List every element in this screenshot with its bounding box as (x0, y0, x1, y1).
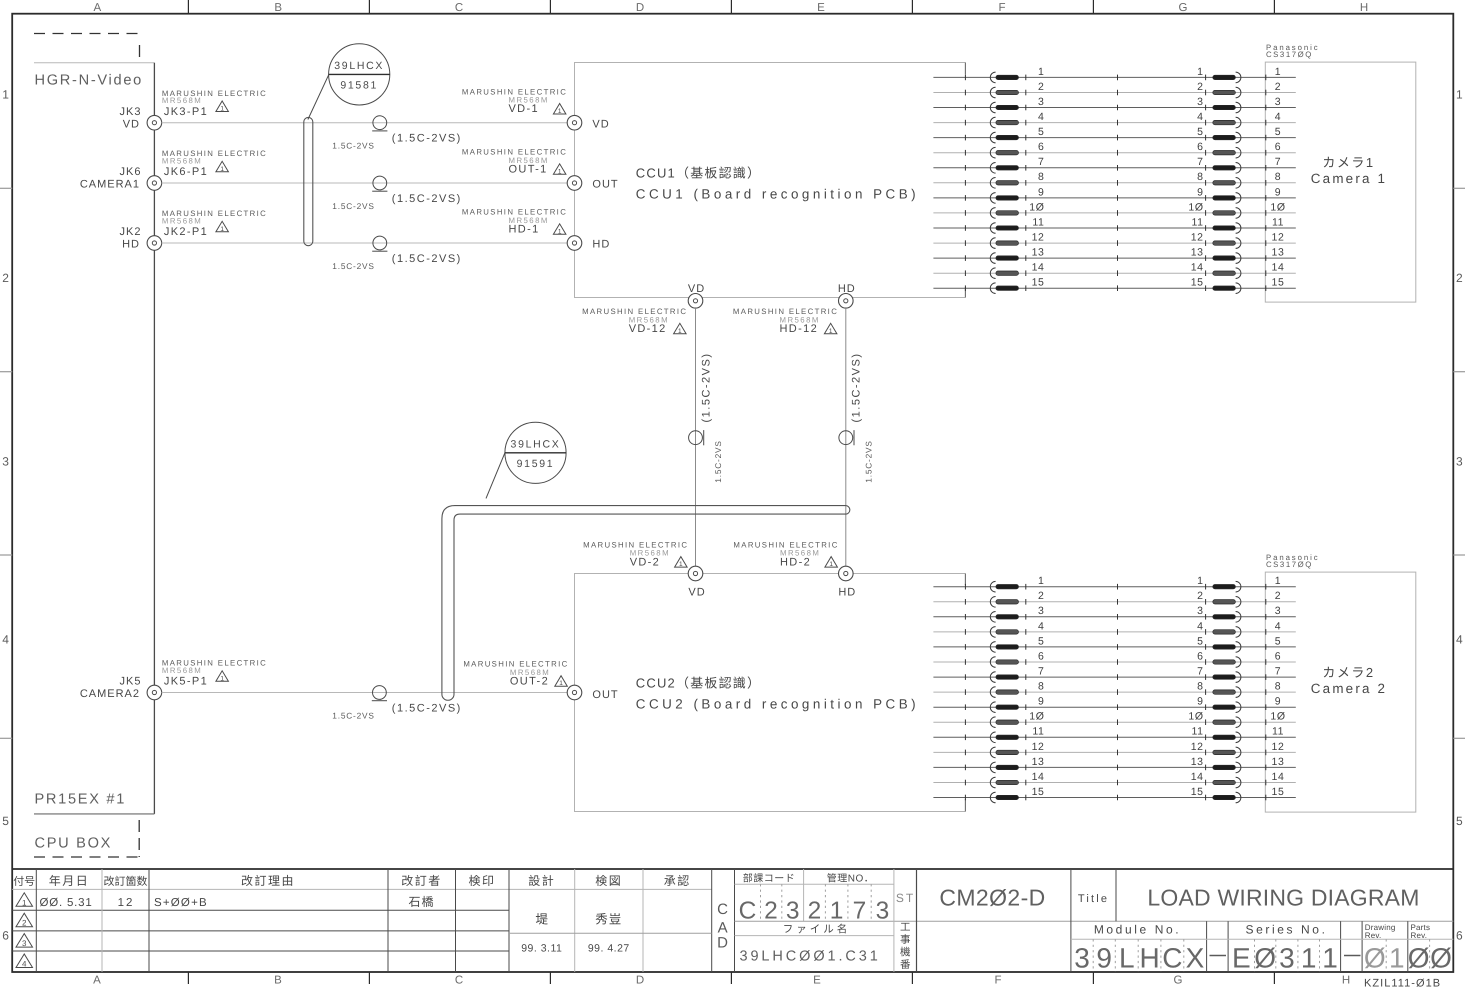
connector VD-2 label (583, 541, 688, 569)
cable clamp on wire 2 (332, 176, 462, 211)
CPU BOX label (35, 836, 113, 852)
svg-text:ØØ. 5.31: ØØ. 5.31 (40, 897, 93, 909)
svg-text:1: 1 (22, 898, 27, 907)
svg-text:15: 15 (1191, 786, 1204, 798)
svg-text:1.5C-2VS: 1.5C-2VS (332, 261, 374, 271)
svg-text:F: F (994, 975, 1001, 987)
svg-text:A: A (93, 975, 101, 987)
camera1 pin row 4 (933, 111, 1295, 128)
svg-text:改訂理由: 改訂理由 (241, 874, 295, 888)
svg-text:1: 1 (559, 680, 563, 687)
svg-text:4: 4 (1038, 111, 1044, 123)
connector HD (CCU2 top) (838, 566, 856, 598)
svg-text:1: 1 (1389, 943, 1405, 974)
svg-text:JK5: JK5 (120, 676, 142, 688)
connector OUT-1 on CCU1 (567, 176, 618, 191)
revision triangle 3 (16, 934, 33, 949)
svg-text:1: 1 (1275, 66, 1281, 78)
svg-text:JK6: JK6 (120, 166, 142, 178)
revision triangle 1 (16, 893, 33, 908)
svg-text:39LHCØØ1.C31: 39LHCØØ1.C31 (740, 949, 881, 965)
svg-text:3: 3 (2, 455, 9, 469)
svg-text:2: 2 (808, 898, 822, 925)
svg-text:Series No.: Series No. (1245, 923, 1327, 937)
svg-text:7: 7 (1197, 156, 1203, 168)
svg-text:1: 1 (220, 106, 224, 113)
svg-text:15: 15 (1272, 786, 1285, 798)
svg-text:CM2Ø2-D: CM2Ø2-D (939, 885, 1045, 911)
camera2 pin row 13 (933, 756, 1295, 773)
svg-text:C: C (739, 898, 757, 925)
camera1 pin row 6 (933, 141, 1295, 158)
ST label (896, 891, 915, 905)
svg-text:15: 15 (1032, 277, 1045, 289)
camera1 pin row 3 (933, 96, 1295, 113)
cable bundle 91591 (L-shaped) (442, 506, 850, 701)
svg-text:2: 2 (1038, 590, 1044, 602)
connector VD-12 label (582, 307, 687, 335)
svg-text:JK3-P1: JK3-P1 (164, 106, 208, 118)
svg-text:D: D (636, 2, 644, 14)
svg-text:1: 1 (679, 561, 683, 568)
frame row numbers right (1456, 88, 1463, 943)
svg-text:11: 11 (1191, 216, 1203, 228)
svg-text:(1.5C-2VS): (1.5C-2VS) (700, 352, 712, 422)
designer / checker entries (521, 913, 630, 955)
connector JK2-P1 label (162, 209, 267, 238)
svg-text:MR568M: MR568M (162, 96, 202, 105)
svg-text:Title: Title (1078, 893, 1109, 905)
svg-text:2: 2 (2, 271, 9, 285)
connector VD (CCU1 bottom) (688, 283, 705, 308)
svg-text:4: 4 (1197, 620, 1203, 632)
svg-text:Module No.: Module No. (1094, 923, 1181, 937)
svg-text:1: 1 (2, 88, 9, 102)
svg-text:3: 3 (1197, 605, 1203, 617)
svg-text:CAMERA2: CAMERA2 (80, 688, 140, 700)
svg-text:機: 機 (900, 947, 911, 959)
svg-text:CCU1 (Board recognition PCB): CCU1 (Board recognition PCB) (636, 186, 919, 201)
svg-text:年月日: 年月日 (49, 874, 90, 888)
connector JK6 (CAMERA1) (80, 166, 162, 191)
camera 1 connector label Panasonic CS3170Q (1266, 43, 1320, 59)
svg-text:CAMERA1: CAMERA1 (80, 179, 140, 191)
wire JK2 to HD-1 (162, 242, 568, 244)
svg-text:JK6-P1: JK6-P1 (164, 166, 208, 178)
camera2 pin row 9 (933, 696, 1295, 713)
svg-text:1Ø: 1Ø (1270, 711, 1285, 723)
svg-text:D: D (636, 975, 644, 987)
leader line balloon 91581 (308, 75, 329, 120)
svg-text:5: 5 (1197, 126, 1203, 138)
svg-text:7: 7 (1038, 666, 1044, 678)
svg-text:2: 2 (1038, 81, 1044, 93)
svg-text:4: 4 (1197, 111, 1203, 123)
camera1 pin row 15 (933, 277, 1295, 294)
cable clamp on VD vertical wire (689, 352, 724, 482)
CCU1 box (575, 63, 966, 298)
svg-text:1: 1 (1322, 943, 1338, 974)
svg-text:3: 3 (1074, 943, 1090, 974)
svg-text:CCU2（基板認識）: CCU2（基板認識） (636, 676, 761, 691)
svg-text:11: 11 (1272, 726, 1284, 738)
svg-text:4: 4 (1275, 111, 1281, 123)
svg-text:MR568M: MR568M (162, 156, 202, 165)
svg-text:7: 7 (853, 898, 867, 925)
connector OUT-1 label (462, 148, 567, 176)
svg-text:39LHCX: 39LHCX (511, 438, 561, 450)
svg-text:1Ø: 1Ø (1188, 711, 1203, 723)
Drawing Rev. header (1365, 923, 1396, 940)
svg-text:MR568M: MR568M (162, 216, 202, 225)
camera2 pin row 11 (933, 726, 1295, 743)
code C23 2173 (739, 898, 890, 925)
svg-text:CS317ØQ: CS317ØQ (1266, 560, 1313, 569)
svg-text:2: 2 (1275, 81, 1281, 93)
svg-text:8: 8 (1275, 681, 1281, 693)
svg-text:3: 3 (22, 939, 27, 948)
camera1 pin row 7 (933, 156, 1295, 173)
svg-text:12: 12 (1191, 232, 1204, 244)
svg-text:(1.5C-2VS): (1.5C-2VS) (392, 133, 462, 145)
wire JK5 to OUT-2 (162, 692, 568, 694)
camera2 pin row 14 (933, 771, 1295, 788)
svg-text:付号: 付号 (13, 875, 35, 888)
svg-text:JK2: JK2 (120, 226, 142, 238)
svg-text:7: 7 (1197, 666, 1203, 678)
svg-text:改訂者: 改訂者 (401, 874, 442, 888)
svg-text:2: 2 (1456, 271, 1463, 285)
module no. / series no. table lines (1071, 921, 1453, 972)
svg-text:1.5C-2VS: 1.5C-2VS (713, 440, 723, 482)
svg-text:CPU BOX: CPU BOX (35, 836, 113, 852)
svg-text:6: 6 (1197, 141, 1203, 153)
camera 2 connector label Panasonic CS3170Q (1266, 553, 1320, 569)
svg-text:秀豈: 秀豈 (595, 913, 622, 927)
svg-text:15: 15 (1272, 277, 1285, 289)
svg-text:2: 2 (1275, 590, 1281, 602)
svg-text:番: 番 (900, 959, 911, 971)
svg-text:14: 14 (1032, 771, 1045, 783)
svg-text:OUT-2: OUT-2 (510, 675, 549, 687)
dash separator 2 (1344, 955, 1361, 957)
svg-text:B: B (274, 975, 282, 987)
svg-text:VD-2: VD-2 (630, 556, 660, 568)
camera2 pin row 2 (933, 590, 1295, 607)
svg-text:KZIL111-Ø1B: KZIL111-Ø1B (1364, 978, 1441, 988)
svg-text:HD: HD (592, 239, 610, 251)
svg-text:S+ØØ+B: S+ØØ+B (154, 897, 208, 909)
svg-text:石橋: 石橋 (408, 895, 434, 909)
svg-text:14: 14 (1191, 262, 1204, 274)
camera2 pin row 4 (933, 620, 1295, 637)
svg-text:1: 1 (220, 166, 224, 173)
module type CM202-D (939, 885, 1045, 911)
svg-text:検印: 検印 (468, 874, 495, 888)
svg-text:1.5C-2VS: 1.5C-2VS (332, 711, 374, 721)
drawing rev 01 (1364, 943, 1405, 974)
PR15EX #1 label and box bottom (34, 792, 154, 814)
title text LOAD WIRING DIAGRAM (1147, 885, 1419, 911)
CCU2 title text (636, 676, 919, 712)
svg-text:9: 9 (1275, 696, 1281, 708)
svg-text:事: 事 (900, 934, 911, 946)
svg-text:91591: 91591 (517, 458, 555, 470)
wire JK6 to OUT-1 (162, 182, 568, 184)
svg-text:13: 13 (1032, 756, 1045, 768)
frame row ticks left (0, 188, 12, 738)
svg-text:14: 14 (1191, 771, 1204, 783)
svg-text:6: 6 (1038, 650, 1044, 662)
balloon 39LHCX 91581 (329, 44, 390, 105)
svg-text:VD: VD (592, 118, 609, 130)
svg-text:VD: VD (123, 119, 140, 131)
svg-text:4: 4 (1456, 633, 1463, 647)
svg-text:9: 9 (1197, 186, 1203, 198)
svg-text:1: 1 (829, 328, 833, 335)
svg-text:Camera 1: Camera 1 (1311, 171, 1387, 186)
svg-text:HD: HD (122, 239, 140, 251)
svg-text:3: 3 (1197, 96, 1203, 108)
CCU1 right edge brackets (964, 63, 966, 298)
svg-text:13: 13 (1032, 247, 1045, 259)
svg-text:C: C (1162, 943, 1182, 974)
svg-text:D: D (717, 935, 728, 952)
title block outer lines (12, 868, 1453, 870)
svg-text:8: 8 (1038, 681, 1044, 693)
svg-text:VD-1: VD-1 (509, 103, 539, 115)
camera2 pin row 10 (933, 711, 1295, 728)
svg-text:11: 11 (1032, 216, 1044, 228)
HGR-N-Video dashed boundary (34, 34, 140, 63)
svg-text:5: 5 (1038, 635, 1044, 647)
frame column ticks top (188, 0, 1274, 14)
svg-text:6: 6 (1197, 650, 1203, 662)
svg-text:1: 1 (558, 108, 562, 115)
camera1 pin row 2 (933, 81, 1295, 98)
svg-text:OUT: OUT (592, 689, 618, 701)
工事機番 vertical label (900, 922, 911, 972)
svg-text:OUT: OUT (592, 179, 618, 191)
svg-text:C: C (455, 2, 463, 14)
svg-text:部課コード: 部課コード (743, 873, 796, 885)
camera 1 box (1265, 62, 1416, 302)
svg-text:VD: VD (688, 587, 705, 599)
CAD column (717, 901, 728, 952)
module type box (1071, 869, 1116, 972)
svg-text:8: 8 (1197, 681, 1203, 693)
connector HD-1 on CCU1 (567, 236, 610, 251)
connector JK6-P1 label (162, 149, 267, 178)
部課コード / 管理NO. headers (743, 873, 875, 885)
camera1 pin row 12 (933, 232, 1295, 249)
svg-text:Camera 2: Camera 2 (1311, 681, 1387, 696)
frame row ticks right (1453, 188, 1465, 738)
svg-text:11: 11 (1032, 726, 1044, 738)
svg-text:5: 5 (1038, 126, 1044, 138)
wire HD vertical (845, 308, 847, 566)
svg-text:2: 2 (1197, 590, 1203, 602)
svg-text:13: 13 (1191, 247, 1204, 259)
svg-text:5: 5 (1275, 635, 1281, 647)
svg-text:6: 6 (2, 929, 9, 943)
svg-text:12: 12 (118, 897, 135, 909)
svg-text:堤: 堤 (536, 913, 549, 927)
camera2 pin row 8 (933, 681, 1295, 698)
svg-text:Ø: Ø (1430, 943, 1452, 974)
svg-text:JK5-P1: JK5-P1 (164, 676, 208, 688)
svg-text:HD: HD (838, 587, 856, 599)
svg-text:99. 3.11: 99. 3.11 (521, 942, 562, 954)
Title label (1078, 893, 1109, 905)
svg-text:1: 1 (1038, 575, 1044, 587)
svg-text:MR568M: MR568M (162, 666, 202, 675)
svg-text:12: 12 (1272, 741, 1285, 753)
svg-text:E: E (813, 975, 821, 987)
svg-text:13: 13 (1191, 756, 1204, 768)
balloon 39LHCX 91591 (505, 422, 566, 483)
svg-text:2: 2 (22, 919, 27, 928)
cable clamp on wire 3 (332, 236, 462, 271)
revision triangle 4 (16, 954, 33, 969)
svg-text:L: L (1119, 943, 1135, 974)
revision table lines (12, 869, 712, 972)
connector HD-2 label (733, 541, 838, 569)
svg-text:5: 5 (1275, 126, 1281, 138)
svg-text:12: 12 (1191, 741, 1204, 753)
svg-text:8: 8 (1038, 171, 1044, 183)
svg-text:JK2-P1: JK2-P1 (164, 226, 208, 238)
svg-text:C: C (717, 901, 728, 918)
frame column ticks bottom (188, 972, 1274, 984)
connector JK3 (VD) (120, 106, 162, 131)
connector VD-1 label (462, 87, 567, 115)
HGR-N-Video box top edge (34, 62, 154, 64)
camera1 pin row 13 (933, 247, 1295, 264)
svg-text:1: 1 (829, 561, 833, 568)
node HGR-N-Video label (35, 73, 143, 89)
svg-text:6: 6 (1456, 929, 1463, 943)
svg-text:1: 1 (558, 168, 562, 175)
svg-text:7: 7 (1275, 156, 1281, 168)
svg-text:HGR-N-Video: HGR-N-Video (35, 73, 143, 89)
camera2 pin row 15 (933, 786, 1295, 803)
svg-text:JK3: JK3 (120, 106, 142, 118)
svg-text:E: E (1232, 943, 1251, 974)
svg-text:3: 3 (1275, 96, 1281, 108)
svg-text:39LHCX: 39LHCX (334, 60, 384, 72)
svg-text:4: 4 (1038, 620, 1044, 632)
camera2 pin row 7 (933, 666, 1295, 683)
frame row numbers left (2, 88, 9, 943)
svg-text:(1.5C-2VS): (1.5C-2VS) (392, 253, 462, 265)
svg-text:OUT-1: OUT-1 (509, 164, 548, 176)
camera2 pin row 5 (933, 635, 1295, 652)
revision table headers (13, 874, 691, 888)
svg-text:1: 1 (220, 675, 224, 682)
camera2 pin row 1 (933, 575, 1295, 592)
svg-text:91581: 91581 (340, 79, 378, 91)
svg-text:1: 1 (1275, 575, 1281, 587)
svg-text:9: 9 (1275, 186, 1281, 198)
frame column letters top (93, 2, 1368, 14)
camera 2 name (1311, 665, 1387, 696)
svg-text:H: H (1342, 975, 1350, 987)
svg-text:7: 7 (1038, 156, 1044, 168)
svg-text:HD-1: HD-1 (509, 224, 540, 236)
svg-text:14: 14 (1272, 771, 1285, 783)
svg-text:6: 6 (1275, 141, 1281, 153)
CPU BOX dashed outline (34, 820, 139, 857)
svg-text:LOAD WIRING DIAGRAM: LOAD WIRING DIAGRAM (1147, 885, 1419, 911)
svg-text:9: 9 (1096, 943, 1112, 974)
camera 1 name (1311, 155, 1387, 186)
svg-text:H: H (1360, 2, 1368, 14)
parts rev 00 (1408, 943, 1452, 974)
svg-text:6: 6 (1038, 141, 1044, 153)
svg-text:(1.5C-2VS): (1.5C-2VS) (392, 703, 462, 715)
svg-text:Rev.: Rev. (1365, 931, 1382, 940)
camera 2 box (1265, 572, 1416, 812)
svg-text:9: 9 (1038, 186, 1044, 198)
svg-text:承認: 承認 (664, 874, 691, 888)
svg-text:9: 9 (1197, 696, 1203, 708)
svg-text:12: 12 (1272, 232, 1285, 244)
svg-text:1.5C-2VS: 1.5C-2VS (864, 440, 874, 482)
svg-text:12: 12 (1032, 741, 1045, 753)
camera1 pin row 1 (933, 66, 1295, 83)
frame column letters bottom (93, 975, 1350, 987)
svg-text:1Ø: 1Ø (1029, 201, 1044, 213)
svg-text:1Ø: 1Ø (1188, 201, 1203, 213)
svg-text:7: 7 (1275, 666, 1281, 678)
svg-text:11: 11 (1191, 726, 1203, 738)
svg-text:1: 1 (1197, 575, 1203, 587)
svg-text:1: 1 (830, 898, 844, 925)
camera1 pin row 10 (933, 201, 1295, 218)
document number KZIL111-01B (1364, 978, 1441, 988)
svg-text:VD-12: VD-12 (629, 323, 667, 335)
cable bundle capsule (JK wires) (304, 117, 313, 245)
svg-text:11: 11 (1272, 216, 1284, 228)
svg-text:C: C (455, 975, 463, 987)
Parts Rev. header (1411, 923, 1431, 940)
connector VD (CCU2 top) (688, 566, 705, 598)
camera2 pin row 6 (933, 650, 1295, 667)
camera1 pin row 14 (933, 262, 1295, 279)
svg-text:4: 4 (22, 960, 27, 969)
svg-text:Ø: Ø (1254, 943, 1276, 974)
svg-text:HD-12: HD-12 (780, 323, 819, 335)
svg-text:ST: ST (896, 891, 915, 905)
revision triangle 2 (16, 913, 33, 928)
svg-text:Ø: Ø (1364, 943, 1386, 974)
svg-text:1: 1 (678, 328, 682, 335)
module number 39LHCX (1074, 943, 1204, 974)
camera1 pin row 5 (933, 126, 1295, 143)
svg-text:工: 工 (900, 922, 911, 934)
svg-text:F: F (998, 2, 1005, 14)
Series No. header (1245, 923, 1327, 937)
wire VD vertical (695, 308, 697, 566)
svg-text:E: E (817, 2, 825, 14)
svg-text:5: 5 (1456, 814, 1463, 828)
svg-text:2: 2 (1197, 81, 1203, 93)
svg-text:Rev.: Rev. (1411, 931, 1428, 940)
svg-text:9: 9 (1038, 696, 1044, 708)
svg-text:15: 15 (1032, 786, 1045, 798)
svg-text:1.5C-2VS: 1.5C-2VS (332, 141, 374, 151)
